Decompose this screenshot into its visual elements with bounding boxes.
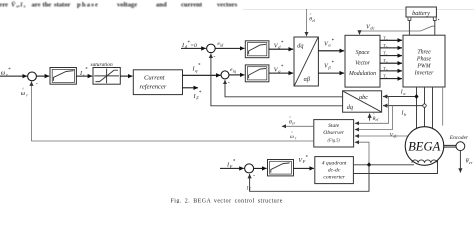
svg-text:b: b xyxy=(404,112,406,117)
wire speed PI to saturation xyxy=(76,75,92,77)
wire gate signal 5 xyxy=(380,70,402,72)
svg-text:Fig. 2. BEGA vector control s: Fig. 2. BEGA vector control structure xyxy=(171,198,283,203)
svg-text:*: * xyxy=(305,155,308,160)
wire Id*=0 reference into d summing junction xyxy=(181,47,206,49)
wire ib tap down to observer input 2 xyxy=(355,106,393,130)
wire S3 to q current PI xyxy=(229,74,244,76)
wire theta_el hat into abc-dq bottom xyxy=(369,114,371,121)
block Current referencer xyxy=(133,70,182,95)
wire S1 to speed PI xyxy=(36,75,49,77)
node label IF* (field chain input) xyxy=(226,159,236,169)
wire ia tap down to observer input 1 xyxy=(355,97,389,124)
svg-text:F: F xyxy=(195,95,199,100)
node label e_iq xyxy=(230,67,236,73)
svg-text:phase: phase xyxy=(77,1,99,8)
svg-text:referencer: referencer xyxy=(140,84,167,91)
wire theta_er encoder output xyxy=(459,151,461,173)
svg-text:id: id xyxy=(220,43,224,48)
op-block d current PI xyxy=(245,41,269,58)
wire ia measurement to abc-dq xyxy=(383,96,417,98)
wire field lead 2 converter to BEGA xyxy=(353,161,437,174)
node label VF* xyxy=(298,155,308,164)
wire dc-link stub down right side xyxy=(442,87,444,126)
wire IF* stub output of current referencer xyxy=(183,87,199,89)
wire d PI to dq-ab block xyxy=(269,48,293,50)
svg-text:er: er xyxy=(292,121,296,126)
block 4 quadrant dc-dc converter xyxy=(315,157,354,184)
svg-text:and: and xyxy=(156,1,167,8)
node label IF* lower output xyxy=(193,91,202,100)
wire omega_r hat feedback observer to S1 xyxy=(32,82,314,142)
node label Vq* xyxy=(274,65,284,74)
op-block saturation limiter xyxy=(93,68,120,85)
summing junction S3 (q axis) xyxy=(221,71,230,86)
svg-text:Space: Space xyxy=(356,50,370,56)
svg-text:*: * xyxy=(199,91,202,96)
battery terminal left xyxy=(408,17,411,20)
svg-text:*: * xyxy=(331,39,334,44)
svg-text:Current: Current xyxy=(144,74,165,81)
svg-text:er: er xyxy=(469,160,473,165)
svg-text:q: q xyxy=(195,68,198,73)
svg-text:b: b xyxy=(386,68,388,72)
wire theta_el into dq-ab transform from top xyxy=(306,9,308,36)
block dq to alpha-beta transform xyxy=(294,37,318,86)
node speed reference label w_r* xyxy=(1,68,11,77)
wire iF from junction to observer input 4 xyxy=(355,142,369,165)
op-block q current PI xyxy=(245,65,269,82)
svg-text:iq: iq xyxy=(233,68,236,73)
node label Id*=0 xyxy=(181,41,197,49)
wire gate signal 2 xyxy=(380,47,402,49)
node label omega_r hat (left) xyxy=(21,86,29,97)
wire Vdc sense from battery terminal to SVM top xyxy=(360,26,435,34)
svg-text:*: * xyxy=(233,159,236,164)
svg-text:-: - xyxy=(213,54,215,60)
summing junction S2 (d axis) xyxy=(207,44,216,60)
block Space Vector Modulation xyxy=(345,35,380,87)
svg-text:-: - xyxy=(253,173,255,179)
node label Is* xyxy=(79,68,88,78)
junction iF tap diamond xyxy=(367,162,371,167)
svg-text:r: r xyxy=(295,135,297,140)
wire gate signal 4 xyxy=(380,62,402,64)
wire battery positive lead xyxy=(434,21,436,36)
wire gate signal 1 SVM to inverter xyxy=(380,39,402,41)
motor BEGA xyxy=(405,127,444,166)
node label Vdc (top) xyxy=(366,23,375,30)
svg-text:dc: dc xyxy=(370,26,374,31)
wire theta_er hat output of observer xyxy=(282,125,314,127)
node label theta_el hat (top) xyxy=(309,13,316,23)
wire field PI to converter xyxy=(294,167,314,169)
svg-text:a: a xyxy=(386,60,388,64)
svg-text:Modulation: Modulation xyxy=(348,71,376,77)
svg-text:dc: dc xyxy=(393,134,397,139)
svg-text:*: * xyxy=(281,41,284,46)
op-block field current PI xyxy=(268,160,294,176)
wire gate signal 6 xyxy=(380,78,402,80)
svg-text:Three: Three xyxy=(417,50,431,56)
encoder disc xyxy=(456,142,465,151)
svg-text:el: el xyxy=(376,117,380,122)
svg-text:ω: ω xyxy=(290,134,294,140)
wire Vdc sense to observer input 3 xyxy=(355,135,409,137)
svg-text:the: the xyxy=(43,1,52,8)
svg-text:r: r xyxy=(26,92,28,97)
caption Fig 2 xyxy=(171,198,283,204)
wire gate signal 3 xyxy=(380,55,402,57)
svg-text:where: where xyxy=(0,1,8,8)
svg-text:-: - xyxy=(36,81,38,87)
svg-text:4 quadrant: 4 quadrant xyxy=(322,160,347,166)
svg-text:s: s xyxy=(83,72,85,77)
svg-text:Encoder: Encoder xyxy=(449,135,469,141)
node label Vd* xyxy=(274,41,284,50)
junction ia tap xyxy=(414,94,418,99)
svg-text:State: State xyxy=(328,123,340,129)
wire Vb* dq-ab to SVM xyxy=(318,72,344,74)
svg-text:(Fig.5): (Fig.5) xyxy=(328,138,341,143)
svg-text:are: are xyxy=(32,1,41,8)
svg-text:*: * xyxy=(198,64,201,69)
block abc to dq transform xyxy=(343,91,382,112)
summing junction S4 (field current) xyxy=(245,164,255,179)
svg-text:Inverter: Inverter xyxy=(414,71,434,77)
node label Va* xyxy=(324,39,334,48)
wire phase a inverter to BEGA xyxy=(416,87,418,129)
node label e_id xyxy=(217,41,224,47)
junction ib tap xyxy=(423,104,426,107)
svg-text:voltage: voltage xyxy=(117,1,137,8)
wire Iq* from current referencer to q summing junction xyxy=(183,74,221,76)
svg-text:current: current xyxy=(181,1,203,8)
wire q PI to dq-ab block xyxy=(269,72,293,74)
svg-text:dq: dq xyxy=(297,43,303,50)
node label Vdc (middle) xyxy=(390,132,398,138)
svg-text:*: * xyxy=(85,68,88,73)
wire speed reference input xyxy=(0,75,27,77)
wire iF feedback loop to S4 xyxy=(250,165,369,192)
svg-text:a: a xyxy=(386,37,388,41)
block Three Phase PWM Inverter xyxy=(403,35,445,87)
wire ib measurement to abc-dq xyxy=(383,105,425,107)
svg-text:s: s xyxy=(23,4,26,9)
wire phase c inverter to BEGA xyxy=(432,87,434,129)
svg-text:-: - xyxy=(228,80,230,86)
svg-text:Vector: Vector xyxy=(355,60,371,66)
node label theta_er hat xyxy=(289,116,296,126)
svg-text:abc: abc xyxy=(359,94,368,101)
cropped paragraph text line at top xyxy=(0,1,238,8)
svg-text:=0: =0 xyxy=(190,43,197,49)
battery terminal right xyxy=(433,17,439,20)
encoder shaft xyxy=(444,145,457,148)
svg-text:^: ^ xyxy=(22,86,24,91)
wire Id feedback from abc-dq to S2 xyxy=(211,54,343,106)
summing junction S1 (speed) xyxy=(28,72,38,87)
wire S4 to field PI xyxy=(254,167,267,169)
svg-text:Observer: Observer xyxy=(323,130,345,136)
wire phase b inverter to BEGA xyxy=(424,87,426,127)
svg-text:Phase: Phase xyxy=(416,57,432,63)
svg-text:ω: ω xyxy=(1,70,6,77)
wire Va* dq-ab to SVM xyxy=(318,50,344,52)
op-block speed PI controller xyxy=(50,68,76,85)
node label Ia xyxy=(400,90,406,96)
field winding scallops inside BEGA xyxy=(412,160,437,163)
svg-text:a: a xyxy=(403,91,405,96)
wire IF* into S4 xyxy=(220,167,244,169)
svg-text:αβ: αβ xyxy=(304,76,311,83)
wire field lead 1 converter to BEGA xyxy=(353,164,414,166)
wire saturation to current referencer xyxy=(120,75,132,77)
svg-text:PWM: PWM xyxy=(416,64,431,70)
wire battery negative lead xyxy=(408,21,410,36)
node label theta_er (right) xyxy=(466,159,473,165)
svg-text:dc-dc: dc-dc xyxy=(328,167,341,173)
svg-text:*: * xyxy=(8,68,11,73)
svg-text:*: * xyxy=(331,61,334,66)
svg-text:dq: dq xyxy=(347,104,353,111)
block State Observer xyxy=(314,120,354,147)
svg-text:el: el xyxy=(312,18,316,23)
svg-text:BEGA: BEGA xyxy=(408,140,440,154)
node label Iq* xyxy=(192,64,201,73)
svg-text:b: b xyxy=(386,45,388,49)
svg-text:vectors: vectors xyxy=(217,1,238,8)
node label omega_r hat (middle) xyxy=(290,131,297,141)
svg-text:battery: battery xyxy=(412,10,430,17)
node label theta_el hat (bottom) xyxy=(373,113,380,123)
svg-text:*: * xyxy=(281,65,284,70)
node label iF (bottom) xyxy=(246,187,252,192)
faint column rule under text xyxy=(243,8,474,10)
svg-text:stator: stator xyxy=(54,1,71,8)
node label Ib xyxy=(401,111,407,117)
wire Iq feedback from abc-dq to S3 xyxy=(225,80,343,97)
node gate labels Ta..Tc xyxy=(383,35,388,79)
label saturation xyxy=(91,62,113,68)
node label Vb* xyxy=(324,61,334,70)
battery box xyxy=(406,7,436,17)
node label Encoder xyxy=(449,135,469,141)
svg-text:converter: converter xyxy=(323,175,345,181)
wire S2 to d current PI xyxy=(215,47,244,49)
